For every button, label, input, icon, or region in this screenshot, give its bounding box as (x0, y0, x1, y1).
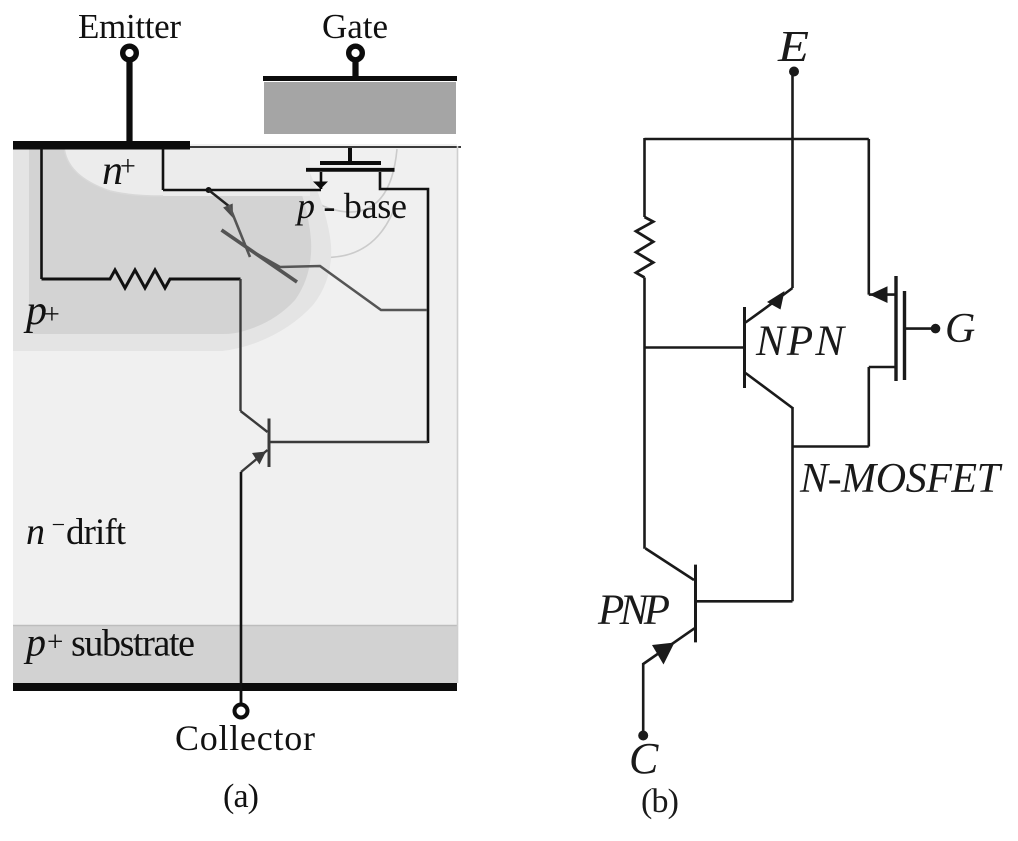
parasitic NPN sketch: emitter segment from node (209, 190, 230, 207)
wire: PNP emitter down to collector metal (240, 472, 243, 691)
parasitic NPN sketch: collector path to drain wire (257, 254, 427, 310)
resistor R (636, 217, 653, 278)
wire PNP emitter down to C (642, 663, 645, 731)
wire: emitter metal down into p+ (40, 148, 43, 279)
p-base diffusion inner contour arc under gate (288, 149, 397, 212)
wire resistor to base node (643, 278, 646, 549)
svg-text:N-MOSFET: N-MOSFET (799, 456, 1003, 502)
MOSFET gate bar (903, 291, 906, 380)
svg-text:p - base: p - base (294, 186, 407, 226)
PNP (a): base wire to drain wire (269, 441, 428, 443)
emitter terminal circle (123, 46, 137, 60)
svg-text:−: − (52, 513, 66, 539)
PNP emitter arrowhead (652, 643, 675, 665)
svg-text:G: G (945, 306, 975, 352)
svg-text:+: + (47, 626, 63, 658)
PNP (a): collector diagonal (241, 411, 268, 432)
resistor Rb (body spreading resistance) (42, 270, 241, 288)
n- drift body (13, 144, 457, 684)
svg-text:NPN: NPN (755, 318, 846, 365)
MOSFET source contact (869, 366, 895, 369)
parasitic NPN sketch: emitter arrowhead (223, 204, 233, 219)
n+ curve outline (64, 146, 163, 196)
NPN collector wire down (791, 407, 794, 601)
parasitic NPN sketch: emitter-collector path (229, 205, 250, 257)
svg-text:drift: drift (66, 512, 127, 553)
n+ emitter diffusion (light) (64, 146, 310, 196)
device top surface line (13, 146, 461, 148)
svg-text:Collector: Collector (175, 718, 315, 758)
PNP (a): emitter arrowhead (252, 452, 266, 465)
PNP emitter diagonal (643, 628, 694, 664)
PNP (a): emitter diagonal (241, 450, 268, 472)
gate top metal bar (263, 76, 457, 81)
NPN base wire (645, 346, 745, 349)
wire: horizontal n+ to MOSFET source (163, 189, 321, 192)
svg-text:substrate: substrate (71, 623, 195, 665)
MOSFET drain wire down (867, 139, 870, 295)
NPN emitter arrowhead (767, 291, 785, 310)
svg-text:E: E (777, 22, 809, 71)
PNP Q2 bar (694, 565, 697, 643)
PNP base wire (696, 600, 793, 603)
svg-text:Gate: Gate (322, 7, 388, 46)
gate terminal circle (349, 46, 363, 60)
p-base diffusion outer contour arc (right of gate) (244, 201, 397, 258)
p+ substrate band (13, 625, 457, 683)
parasitic NPN sketch: base bar (222, 230, 298, 282)
svg-text:+: + (120, 152, 136, 183)
PNP (a): bar (268, 419, 271, 468)
MOSFET drain arrowhead (870, 286, 888, 303)
svg-text:+: + (44, 300, 60, 331)
MOSFET source arrow (313, 182, 328, 190)
NPN collector diagonal (746, 373, 793, 408)
junction node dot (206, 187, 212, 193)
MOSFET channel bar (894, 276, 897, 381)
gate terminal stub (352, 60, 358, 78)
terminal E dot (789, 67, 799, 77)
svg-text:Emitter: Emitter (78, 7, 181, 46)
NPN Q1 bar (743, 307, 746, 388)
PNP collector diagonal (645, 548, 694, 580)
svg-text:p: p (23, 620, 46, 665)
p+ deep well (medium grey) (29, 146, 311, 334)
left wire down to resistor (643, 138, 646, 217)
MOSFET gate line in (a) (320, 161, 381, 165)
svg-text:(b): (b) (641, 783, 679, 820)
wire: emitter metal down right of n+ (162, 148, 165, 190)
collector terminal stub (240, 691, 243, 704)
MOSFET gate stub in (a) (348, 148, 352, 162)
p+ deep-well outer halo (13, 146, 331, 351)
NPN emitter diagonal from E wire (746, 288, 793, 323)
svg-text:n: n (26, 511, 45, 553)
MOSFET source wire down (867, 367, 870, 447)
wire E down (791, 74, 794, 288)
top rail wire (645, 138, 869, 141)
svg-text:C: C (629, 734, 659, 783)
wire: resistor node down to PNP collector (239, 279, 241, 411)
gate lead wire (906, 327, 934, 330)
device right edge (457, 146, 459, 683)
gate electrode (polysilicon grey) (264, 82, 456, 134)
emitter metal bar (13, 141, 190, 150)
MOSFET channel line in (a) (306, 168, 395, 172)
MOSFET drain contact (869, 293, 895, 296)
substrate top boundary (13, 625, 457, 627)
terminal G dot (931, 324, 941, 334)
bottom collector metal bar (13, 683, 457, 691)
terminal C dot (638, 731, 648, 741)
wire collector node to MOSFET source (793, 445, 869, 448)
MOSFET source contact with arrow (320, 172, 323, 189)
MOSFET drain contact (380, 172, 428, 443)
collector terminal circle (235, 705, 248, 718)
svg-text:(a): (a) (223, 778, 259, 815)
emitter terminal stub (126, 60, 132, 145)
svg-text:PNP: PNP (597, 587, 670, 634)
